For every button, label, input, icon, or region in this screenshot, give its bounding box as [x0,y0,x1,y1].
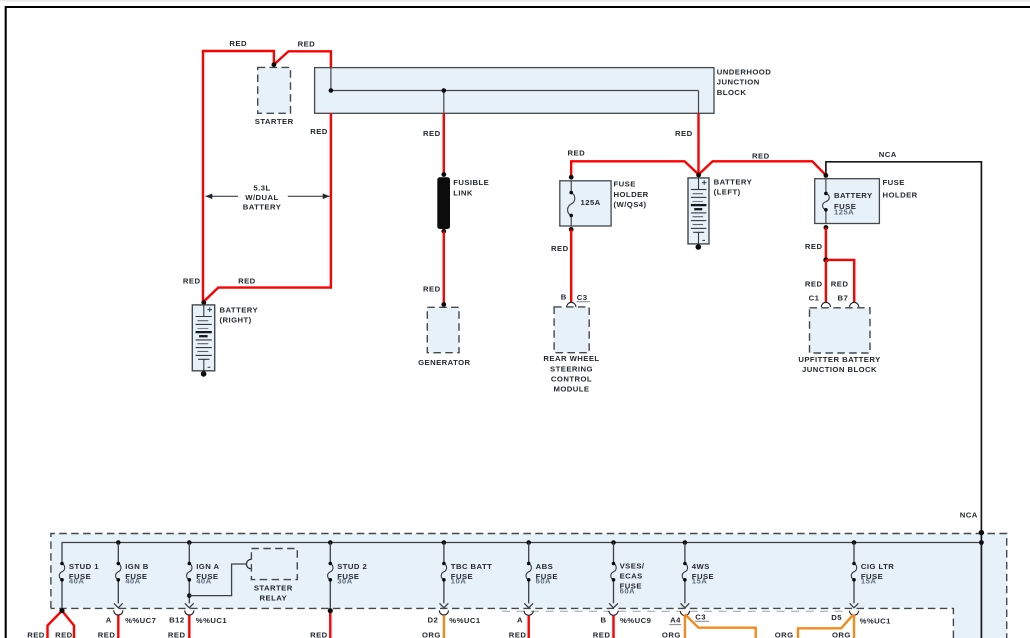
svg-text:ABS: ABS [536,562,554,571]
svg-text:GENERATOR: GENERATOR [418,358,470,367]
svg-text:%%UC1: %%UC1 [449,616,481,625]
svg-text:STARTER: STARTER [255,117,294,126]
svg-text:4WS: 4WS [692,562,710,571]
svg-text:RED: RED [593,630,611,638]
underhood fuse block box (light blue) [51,534,1007,638]
svg-text:RED: RED [183,277,201,286]
svg-text:RED: RED [423,284,441,293]
node junction dot [823,257,828,262]
svg-text:HOLDER: HOLDER [883,190,918,199]
wire RED: junction block to fusible link [443,113,445,174]
node dot IGN A relay branch [187,593,192,598]
wire: junction block internal bus [331,68,699,113]
svg-text:HOLDER: HOLDER [614,190,649,199]
svg-text:60A: 60A [620,586,635,595]
svg-text:15A: 15A [861,577,876,586]
wire RED: ABS out [528,616,530,638]
wire RED: fuse holder WQS4 to battery left [571,161,698,177]
svg-text:RED: RED [752,151,770,160]
fuse holder W/QS4 [560,175,611,232]
wire NCA: battery fuse holder to far right and down [826,162,982,638]
node dot NCA at box top edge [979,530,984,535]
svg-text:%%UC9: %%UC9 [620,616,651,625]
svg-text:IGN B: IGN B [125,562,149,571]
svg-text:RED: RED [229,39,247,48]
svg-text:5.3L: 5.3L [253,183,270,192]
svg-text:D2: D2 [427,615,438,624]
svg-text:RED: RED [27,630,45,638]
svg-text:B12: B12 [169,615,184,624]
svg-text:JUNCTION: JUNCTION [717,78,760,87]
svg-text:BATTERY: BATTERY [243,202,282,211]
fusible link element [437,177,450,229]
svg-text:UPFITTER BATTERY: UPFITTER BATTERY [798,355,880,364]
fuse STUD 1 40A [59,562,99,611]
connector arc CIG LTR [849,611,858,616]
svg-text:ECAS: ECAS [620,572,643,581]
generator box [427,307,459,352]
rear wheel steering control module box [554,307,589,353]
svg-text:JUNCTION BLOCK: JUNCTION BLOCK [802,365,877,374]
node dot at generator [441,302,446,307]
connector arc IGN A [185,610,194,615]
starter relay box [251,549,297,580]
wire RED: IGN B out [117,615,119,638]
svg-text:STUD 2: STUD 2 [337,562,367,571]
wire RED: fuse holder WQS4 to rear wheel module [570,229,572,302]
node dot STUD2 out [328,608,333,613]
svg-text:D5: D5 [831,613,842,622]
dimension note 5.3L W/DUAL BATTERY [206,195,330,197]
battery BATTERY (RIGHT) [192,300,214,377]
fuse VSES/ECAS 60A [609,540,645,608]
svg-text:40A: 40A [69,577,84,586]
connector arc at rear wheel module [567,302,576,307]
svg-text:RED: RED [831,280,849,289]
svg-text:(RIGHT): (RIGHT) [220,316,252,325]
wire RED: STUD2 out [329,611,331,638]
starter box [258,67,291,113]
svg-text:BATTERY: BATTERY [220,306,259,315]
svg-text:REAR WHEEL: REAR WHEEL [543,354,599,363]
svg-text:ORG: ORG [832,630,851,638]
wire ORG: 4WS straight out [684,615,686,638]
svg-text:ORG: ORG [775,630,794,638]
svg-text:RED: RED [298,39,316,48]
top window edge strip [0,0,1030,2]
svg-text:RED: RED [551,244,569,253]
wire ORG: CIG branch left [798,614,854,638]
svg-text:%%UC7: %%UC7 [125,616,156,625]
connector arc TBC [439,610,448,615]
svg-text:A4: A4 [670,616,681,625]
node dot below fusible link [441,229,446,234]
connector arc VSES [609,611,618,616]
node: bus dot B [442,88,447,93]
svg-text:60A: 60A [536,577,551,586]
svg-text:ORG: ORG [662,630,681,638]
svg-text:30A: 30A [337,577,352,586]
svg-text:RED: RED [675,129,693,138]
svg-text:NCA: NCA [879,150,897,159]
main bus wire in fuse block [62,543,981,564]
svg-text:MODULE: MODULE [553,385,589,394]
svg-text:RED: RED [805,280,823,289]
svg-text:B: B [600,615,606,624]
wire RED: junction block right leg to battery left [697,113,699,174]
svg-text:UNDERHOOD: UNDERHOOD [717,67,771,76]
svg-text:STARTER: STARTER [254,584,293,593]
svg-text:B7: B7 [838,294,849,303]
svg-text:%%UC1: %%UC1 [860,616,892,625]
inner module top edge (thin gray dashed) [502,610,849,612]
svg-text:TBC BATT: TBC BATT [451,562,492,571]
svg-text:A: A [106,615,112,624]
wire RED: battery left to battery fuse holder [699,161,826,175]
connector arc 4WS [680,611,689,616]
svg-text:RED: RED [805,242,823,251]
svg-text:(LEFT): (LEFT) [714,188,741,197]
fuse ABS 60A [524,540,558,608]
fuse STUD 2 30A [328,540,368,611]
connector arc starter relay [246,559,251,568]
svg-text:C3: C3 [577,293,588,302]
svg-text:A: A [517,615,523,624]
svg-text:NCA: NCA [960,510,978,519]
svg-text:FUSIBLE: FUSIBLE [453,178,489,187]
svg-text:RED: RED [310,127,328,136]
svg-text:125A: 125A [834,208,854,217]
svg-text:FUSE: FUSE [614,180,636,189]
node dot STUD1 out [59,608,64,613]
svg-text:BATTERY: BATTERY [714,178,753,187]
wire RED: battery right up to starter (left loop) [203,51,274,302]
wire RED: STUD1 right leg [62,611,74,638]
svg-text:RED: RED [423,129,441,138]
svg-text:40A: 40A [125,577,140,586]
fuse TBC BATT 10A [440,540,493,608]
fuse IGN A 40A [185,540,220,608]
node dot NCA at bus [979,540,984,545]
underhood junction block box [315,68,714,114]
svg-text:RED: RED [98,630,116,638]
wire ORG: CIG straight out [853,615,855,638]
svg-text:C1: C1 [809,294,820,303]
battery BATTERY (LEFT) [688,173,709,250]
wire RED: battery fuse to junction node [825,228,827,260]
wire NCA vertical through fuse block [980,532,982,638]
wire RED: VSES out [612,616,614,638]
node: bus dot A [329,88,334,93]
wire RED: fusible link to generator [443,231,445,304]
svg-text:C3: C3 [695,613,706,622]
svg-text:FUSE: FUSE [883,178,905,187]
connector arc upfitter C1 [821,302,830,307]
svg-text:(W/QS4): (W/QS4) [614,200,647,209]
wire RED: junction to upfitter B7 [826,260,854,302]
svg-text:%%UC1: %%UC1 [196,616,228,625]
node dot above fusible link [441,172,446,177]
svg-text:ORG: ORG [422,630,441,638]
fuse 4WS 15A [681,540,715,608]
wire RED: starter to underhood junction block [274,51,331,68]
svg-text:B: B [561,292,567,301]
svg-text:STEERING: STEERING [550,364,593,373]
svg-text:VSES/: VSES/ [620,562,645,571]
svg-text:RED: RED [568,148,586,157]
wire ORG: 4WS branch right [685,614,756,638]
wire RED: junction block left leg down to battery right [204,113,331,301]
connector arc IGN B [114,610,123,615]
fuse IGN B 40A [114,540,149,608]
svg-text:RELAY: RELAY [259,594,287,603]
node: starter terminal dot [272,62,277,67]
connector arc ABS [524,611,533,616]
svg-text:STUD 1: STUD 1 [69,562,99,571]
svg-text:CIG LTR: CIG LTR [861,562,894,571]
svg-text:15A: 15A [692,577,707,586]
svg-text:LINK: LINK [453,188,473,197]
connector arc upfitter B7 [850,302,859,307]
svg-text:40A: 40A [196,577,211,586]
wire RED: junction to upfitter C1 [825,260,827,302]
svg-text:BATTERY: BATTERY [834,191,873,200]
svg-text:RED: RED [509,630,527,638]
battery fuse holder FUSE HOLDER [815,173,880,230]
wire RED: STUD1 left leg [48,611,63,638]
svg-text:W/DUAL: W/DUAL [245,193,278,202]
wire RED: IGN A out [188,615,190,638]
svg-text:RED: RED [238,277,256,286]
svg-text:CONTROL: CONTROL [551,374,592,383]
fuse CIG LTR 15A [850,540,895,608]
svg-text:RED: RED [168,630,186,638]
upfitter battery junction block box [810,308,871,353]
wire ORG: TBC out [443,615,445,638]
svg-text:IGN A: IGN A [196,562,219,571]
svg-text:125A: 125A [581,198,601,207]
svg-text:BLOCK: BLOCK [717,88,747,97]
svg-text:RED: RED [55,630,73,638]
wire: relay branch [189,564,246,596]
svg-text:RED: RED [310,630,328,638]
svg-text:10A: 10A [451,577,466,586]
